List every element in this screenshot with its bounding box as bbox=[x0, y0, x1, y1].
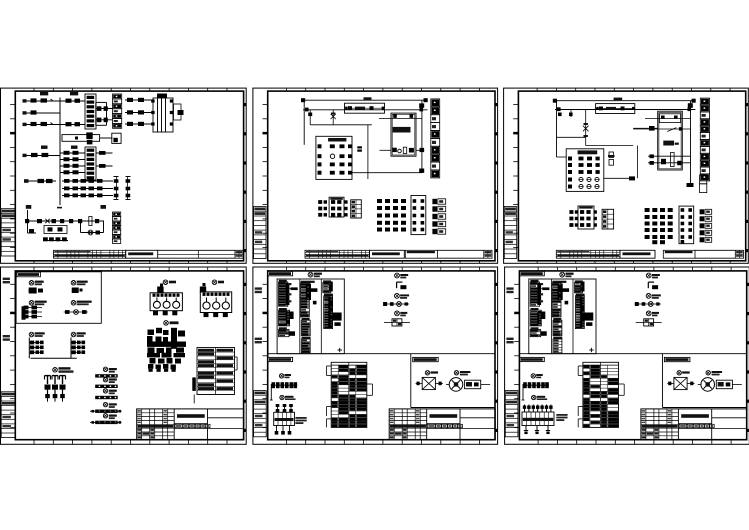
sheet 5 conn table 3a bbox=[323, 280, 331, 292]
sheet2 wire bbox=[308, 110, 312, 125]
sheet2 bus drop bbox=[303, 100, 305, 145]
sheet3 wire bbox=[586, 145, 634, 147]
sheet 5 conn table 1a bar bbox=[286, 283, 290, 305]
sheet 6 conn table 1c bbox=[530, 327, 541, 336]
sheet4 legend symbol 3 bbox=[29, 301, 47, 306]
sheet4 legend item3 rows bbox=[22, 306, 43, 320]
sheet 6 drawing frame bbox=[505, 267, 749, 444]
sheet 1 title block bbox=[53, 250, 243, 258]
sheet3 mini box bbox=[700, 175, 707, 193]
sheet1 lamp branch bbox=[81, 221, 104, 235]
sheet1 group2 outgoing bbox=[96, 151, 113, 168]
sheet 6 conn tabs 1c bbox=[540, 331, 546, 336]
sheet4 disconnect switches bbox=[45, 376, 66, 402]
sheet 5 section header 3 bbox=[413, 357, 439, 361]
sheet3 relay box KA bbox=[596, 104, 635, 114]
sheet 5 conn table 1c bbox=[279, 327, 290, 336]
sheet1 control subloop bbox=[44, 226, 67, 234]
sheet2 relay box KA bbox=[345, 103, 385, 113]
sheet1 terminal column XT3 bbox=[85, 147, 96, 180]
sheet 6 plus mark bbox=[589, 348, 594, 352]
sheet1 control label C bbox=[57, 207, 62, 209]
sheet1 incomer rows bbox=[125, 98, 153, 126]
sheet1 contact grid bbox=[114, 177, 131, 200]
sheet 6 conn table 2a bbox=[552, 281, 566, 317]
sheet3 relay panel box bbox=[566, 149, 604, 192]
sheet4 motor starter group A bbox=[150, 280, 182, 315]
sheet 5 plus mark bbox=[338, 348, 343, 352]
sheet 6 conn table 3b bar bbox=[580, 297, 585, 328]
sheet4 outlet row 4 bbox=[90, 402, 122, 413]
sheet 5 conn table 2a bar bbox=[306, 284, 311, 301]
sheet 6 conn table 1a bbox=[530, 280, 539, 306]
sheet 4 drawing frame bbox=[1, 267, 247, 444]
sheet1 label group2 B bbox=[71, 146, 78, 149]
sheet 5 bl label 2 bbox=[280, 395, 296, 400]
sheet2 return wire bbox=[419, 100, 424, 173]
sheet1 bus wire bbox=[59, 98, 61, 206]
sheet 5 section divider bbox=[267, 354, 495, 408]
sheet4 switch rows B bbox=[31, 338, 86, 359]
sheet4 legend symbol 4 bbox=[71, 301, 92, 306]
sheet4 legend box bbox=[16, 272, 101, 324]
sheet1 terminal strip XT4 bbox=[113, 212, 121, 244]
sheet1 terminal column XT1 bbox=[85, 94, 96, 129]
sheet4 motor starter group B bbox=[200, 280, 232, 317]
sheet1 label group2 A bbox=[41, 146, 48, 149]
sheet2 phase wire L1 bbox=[301, 97, 428, 102]
sheet4 switch rows A bbox=[29, 338, 43, 359]
sheet1 branch row 2 bbox=[60, 122, 85, 126]
sheet 6 connector block bbox=[522, 405, 568, 435]
sheet1 terminal strip XT2 bbox=[113, 94, 122, 128]
sheet4 outlet row 5 bbox=[90, 414, 122, 425]
sheet 6 section divider bbox=[519, 354, 747, 408]
sheet 6 item row 4 bbox=[635, 302, 661, 307]
sheet 5 bl label 1 bbox=[279, 374, 291, 379]
sheet2 terminal strip XT bbox=[431, 99, 440, 178]
sheet 5 conn table 2b bbox=[301, 318, 310, 336]
sheet 5 terminal row drawing bbox=[270, 382, 297, 400]
sheet 5 item box 6 bbox=[384, 319, 410, 326]
sheet 6 item label 5 bbox=[646, 311, 659, 316]
sheet 5 margin note 1 bbox=[255, 287, 262, 293]
sheet1 outgoing rows bbox=[96, 102, 113, 125]
sheet 6 title block bbox=[641, 409, 747, 440]
sheet 5 conn table 1b bbox=[279, 308, 290, 326]
sheet 5 top label bbox=[308, 272, 322, 277]
sheet4 legend item2 detail bbox=[72, 288, 83, 294]
sheet 6 bl label 1 bbox=[531, 374, 543, 379]
sheet4 KM label bbox=[164, 321, 179, 326]
sheet 6 conn table 1a bar bbox=[537, 283, 541, 305]
sheet4 symbol 6 bbox=[71, 332, 86, 337]
sheet2 wire bbox=[380, 149, 425, 151]
sheet 4 margin note 2 bbox=[3, 335, 10, 341]
sheet 5 item row 4 bbox=[383, 302, 409, 307]
sheet 5 conn table 1b bar bbox=[286, 311, 290, 324]
sheet 5 item label 1 bbox=[395, 273, 409, 278]
sheet4 main contact cluster bbox=[147, 328, 186, 372]
sheet 6 item label 3 bbox=[646, 294, 661, 299]
sheet 5 lamp label bbox=[425, 371, 438, 375]
sheet 6 conn table 1b bar bbox=[537, 311, 541, 324]
sheet 4 margin note 1 bbox=[3, 278, 10, 284]
sheet 6 flood lamp bbox=[667, 377, 694, 389]
sheet 5 conn tabs 2a bbox=[309, 288, 317, 304]
sheet 6 conn table 2b bbox=[553, 318, 562, 336]
sheet 6 lamp label bbox=[677, 371, 690, 375]
sheet1 group3 left row bbox=[24, 179, 56, 183]
sheet4 BOM table bbox=[192, 348, 237, 404]
sheet 6 margin note 1 bbox=[506, 287, 513, 293]
sheet2 relay contact field bbox=[377, 196, 426, 235]
sheet 5 terminal block table bbox=[327, 362, 373, 427]
sheet3 junction bbox=[633, 126, 658, 131]
sheet1 control line bbox=[25, 217, 104, 226]
sheet 6 top label bbox=[560, 272, 574, 277]
sheet 5 conn tabs 3b bbox=[333, 313, 342, 326]
sheet 5 conn tabs 1a bbox=[288, 283, 298, 302]
sheet 5 title block bbox=[389, 409, 495, 440]
sheet4 symbol 5 bbox=[29, 332, 45, 337]
sheet2 CT group bbox=[318, 197, 347, 217]
sheet2 phase wire L2 bbox=[303, 108, 428, 112]
sheet2 bottom wire bbox=[352, 172, 422, 174]
sheet 2 title block bbox=[305, 250, 492, 258]
sheet2 relay panel box bbox=[316, 136, 352, 179]
sheet 5 item symbol 2 bbox=[397, 282, 407, 289]
sheet3 terminal strip XT bbox=[700, 98, 709, 181]
sheet 6 section header 1 bbox=[520, 271, 545, 276]
sheet 6 section header 3 bbox=[664, 357, 690, 361]
sheet 6 conn table 3b bbox=[575, 294, 584, 329]
sheet 5 conn tabs 1b bbox=[290, 312, 294, 320]
sheet 5 fan label bbox=[454, 371, 470, 376]
sheet 5 revision table bbox=[254, 391, 267, 437]
sheet 3 drawing frame bbox=[504, 88, 749, 263]
sheet 5 conn table 3b bbox=[324, 294, 333, 329]
sheet 6 conn tabs 2a bbox=[561, 288, 569, 304]
sheet3 relay contact field bbox=[645, 206, 694, 244]
sheet1 meter box bbox=[112, 133, 121, 143]
sheet2 wire bbox=[310, 124, 372, 126]
sheet 2 revision table bbox=[254, 207, 266, 259]
sheet2 terminal box bbox=[351, 200, 362, 218]
sheet 6 conn table 3a bbox=[575, 280, 583, 292]
sheet 5 flood lamp bbox=[416, 377, 443, 389]
sheet 6 conn table 1b bbox=[530, 308, 541, 326]
sheet 5 item label 3 bbox=[395, 294, 410, 299]
sheet 5 section header 1 bbox=[268, 271, 293, 276]
sheet3 CT group bbox=[569, 206, 597, 229]
sheet 6 item label 1 bbox=[646, 273, 660, 278]
sheet 6 conn table 2c bbox=[553, 337, 562, 353]
sheet 5 item label 5 bbox=[395, 311, 408, 316]
sheet3 terminal strip XT5 bbox=[700, 209, 712, 242]
sheet3 wire bbox=[637, 146, 639, 179]
sheet 6 conn table 3a bar bbox=[580, 282, 584, 292]
sheet 5 margin note 2 bbox=[255, 338, 262, 344]
sheet 5 conn table 3a bar bbox=[329, 282, 333, 292]
sheet2 buttons SB bbox=[357, 146, 362, 151]
sheet1 feeder switch row 2 bbox=[23, 110, 61, 114]
sheet1 group3 rows bbox=[62, 179, 113, 197]
sheet 5 section header 2 bbox=[268, 357, 293, 361]
sheet3 return wire bbox=[687, 101, 694, 187]
sheet2 wire bbox=[367, 125, 369, 179]
sheet3 bottom wire bbox=[604, 176, 635, 180]
sheet1 label QS group B bbox=[70, 92, 78, 95]
sheet 4 title block bbox=[137, 409, 244, 440]
sheet 6 conn table 2a bar bbox=[558, 284, 563, 301]
sheet4 outlet row 2 bbox=[95, 378, 118, 389]
sheet 6 terminal block table bbox=[578, 362, 624, 427]
sheet 1 revision table bbox=[1, 209, 15, 256]
sheet 6 margin note 2 bbox=[506, 338, 513, 344]
sheet4 legend symbol 1 bbox=[29, 281, 44, 286]
sheet 6 fan bbox=[698, 378, 742, 392]
sheet 2 drawing frame bbox=[253, 88, 498, 263]
sheet2 controller block U1 bbox=[379, 113, 424, 156]
sheet1 control label B bbox=[101, 205, 107, 209]
sheet1 left row group2 bbox=[23, 153, 61, 157]
sheet 6 conn tabs 3b bbox=[584, 313, 593, 326]
sheet 6 bl label 2 bbox=[532, 395, 548, 400]
sheet3 phase wire L1 bbox=[553, 98, 696, 103]
sheet1 feeder switch row 1 bbox=[23, 98, 61, 102]
sheet1 feeder switch row 3 bbox=[23, 122, 61, 126]
sheet1 label QS group A bbox=[40, 92, 48, 95]
sheet3 terminal box bbox=[602, 209, 614, 229]
sheet1 control label A bbox=[26, 205, 32, 209]
sheet1 group2 branch rows bbox=[60, 151, 85, 175]
sheet4 outlet row 1 bbox=[95, 367, 118, 378]
sheet1 busbar box bbox=[62, 132, 113, 144]
sheet4 switch label bbox=[53, 367, 74, 373]
sheet 5 wiring box bbox=[277, 279, 344, 354]
sheet2 fuse FU bbox=[331, 110, 336, 125]
sheet 6 fan label bbox=[706, 371, 722, 376]
sheet4 legend item1 detail bbox=[29, 288, 43, 294]
sheet 6 item box 6 bbox=[636, 319, 662, 326]
sheet3 fuse FU bbox=[583, 110, 589, 146]
sheet 1 drawing frame bbox=[1, 88, 247, 263]
sheet1 breaker block QF bbox=[151, 94, 183, 133]
sheet4 legend item4 row bbox=[64, 310, 88, 315]
sheet3 phase wire L2 bbox=[555, 107, 695, 111]
sheet4 legend symbol 2 bbox=[71, 281, 88, 286]
sheet 5 connector block bbox=[274, 404, 307, 435]
sheet 5 conn tabs 1c bbox=[289, 331, 295, 336]
sheet 5 drawing frame bbox=[253, 267, 498, 444]
sheet1 branch row 1 bbox=[60, 99, 85, 103]
sheet1 control row 2 bbox=[43, 237, 68, 241]
sheet 3 revision table bbox=[504, 207, 516, 259]
sheet1 control drop left bbox=[28, 210, 37, 234]
sheet 6 terminal row drawing bbox=[522, 382, 549, 400]
sheet 3 title block bbox=[556, 250, 743, 258]
sheet 6 revision table bbox=[505, 391, 518, 437]
sheet3 bus drop bbox=[557, 101, 573, 157]
sheet 6 wiring box bbox=[529, 279, 596, 354]
sheet 5 conn table 2a bbox=[300, 281, 314, 317]
sheet 6 section header 2 bbox=[520, 357, 545, 361]
sheet 4 revision table bbox=[1, 392, 15, 438]
sheet 5 conn table 1a bbox=[279, 280, 288, 306]
sheet3 wire bbox=[557, 136, 586, 138]
sheet 6 conn tabs 1a bbox=[540, 283, 550, 302]
sheet 6 item symbol 2 bbox=[648, 282, 658, 289]
sheet3 controller block U1 bbox=[633, 111, 690, 170]
sheet 5 conn table 3b bar bbox=[328, 297, 333, 328]
sheet2 terminal strip XT5 bbox=[432, 199, 445, 234]
sheet 5 conn table 2c bbox=[301, 337, 310, 353]
sheet4 outlet row 3 bbox=[95, 389, 118, 400]
sheet 5 fan bbox=[446, 378, 490, 392]
sheet3 coil KM bbox=[608, 152, 615, 165]
sheet 6 conn tabs 1b bbox=[541, 312, 545, 320]
